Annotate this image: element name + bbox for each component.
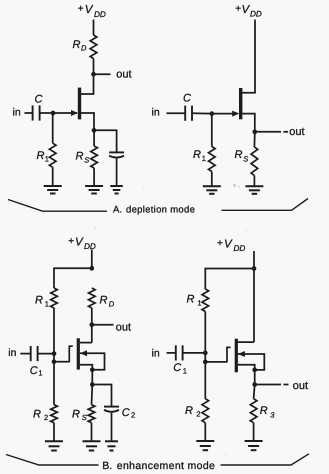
svg-text:C: C <box>35 93 43 105</box>
svg-text:1: 1 <box>202 154 206 163</box>
svg-text:1: 1 <box>197 298 201 307</box>
svg-text:R: R <box>76 151 84 163</box>
svg-text:R: R <box>235 149 243 161</box>
svg-text:depletion mode: depletion mode <box>126 204 195 215</box>
svg-text:C: C <box>183 93 191 105</box>
svg-text:D: D <box>81 44 87 53</box>
svg-text:out: out <box>293 380 308 392</box>
svg-text:in: in <box>13 106 21 118</box>
svg-text:+: + <box>235 4 241 15</box>
svg-text:1: 1 <box>45 155 49 164</box>
svg-text:1: 1 <box>183 366 187 375</box>
svg-text:R: R <box>73 39 81 51</box>
svg-text:R: R <box>72 409 80 421</box>
svg-text:DD: DD <box>250 10 262 19</box>
svg-text:R: R <box>33 409 41 421</box>
svg-text:S: S <box>84 156 89 165</box>
svg-text:R: R <box>185 405 193 417</box>
svg-text:R: R <box>100 294 108 306</box>
svg-text:+: + <box>68 236 74 247</box>
svg-text:DD: DD <box>94 10 106 19</box>
svg-text:+: + <box>217 238 223 249</box>
svg-text:R: R <box>35 295 43 307</box>
svg-text:out: out <box>116 69 131 81</box>
svg-text:C: C <box>122 407 130 419</box>
svg-text:1: 1 <box>38 369 42 378</box>
svg-text:in: in <box>8 347 16 359</box>
svg-text:2: 2 <box>196 410 200 419</box>
svg-text:enhancement mode: enhancement mode <box>117 460 215 472</box>
svg-text:V: V <box>224 239 233 251</box>
svg-text:in: in <box>152 347 160 359</box>
svg-text:+: + <box>78 4 84 15</box>
svg-text:D: D <box>109 299 115 308</box>
svg-text:R: R <box>193 149 201 161</box>
svg-text:V: V <box>75 237 84 249</box>
svg-text:R: R <box>37 150 45 162</box>
svg-text:in: in <box>152 106 160 118</box>
svg-text:out: out <box>289 126 304 138</box>
svg-text:DD: DD <box>234 244 246 253</box>
svg-text:V: V <box>85 4 94 16</box>
svg-text:2: 2 <box>131 411 135 420</box>
svg-text:A.: A. <box>113 204 122 215</box>
svg-text:C: C <box>30 365 38 377</box>
svg-text:B.: B. <box>102 460 112 472</box>
svg-text:R: R <box>260 405 268 417</box>
svg-text:C: C <box>173 362 181 374</box>
svg-text:S: S <box>243 155 248 164</box>
svg-text:DD: DD <box>84 242 96 251</box>
svg-text:R: R <box>187 293 195 305</box>
svg-text:S: S <box>82 413 87 422</box>
svg-text:3: 3 <box>270 410 275 419</box>
svg-text:2: 2 <box>44 413 48 422</box>
svg-text:out: out <box>116 321 131 333</box>
svg-text:1: 1 <box>45 299 49 308</box>
